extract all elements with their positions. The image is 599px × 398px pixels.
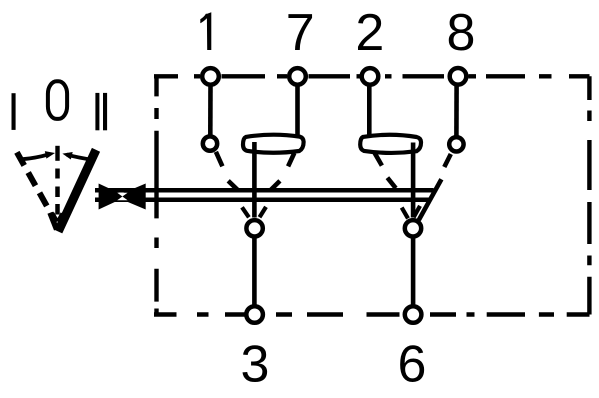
svg-text:6: 6: [398, 335, 427, 393]
svg-text:3: 3: [241, 335, 270, 393]
svg-text:8: 8: [447, 4, 476, 62]
svg-text:2: 2: [355, 4, 384, 62]
svg-text:7: 7: [286, 4, 315, 62]
